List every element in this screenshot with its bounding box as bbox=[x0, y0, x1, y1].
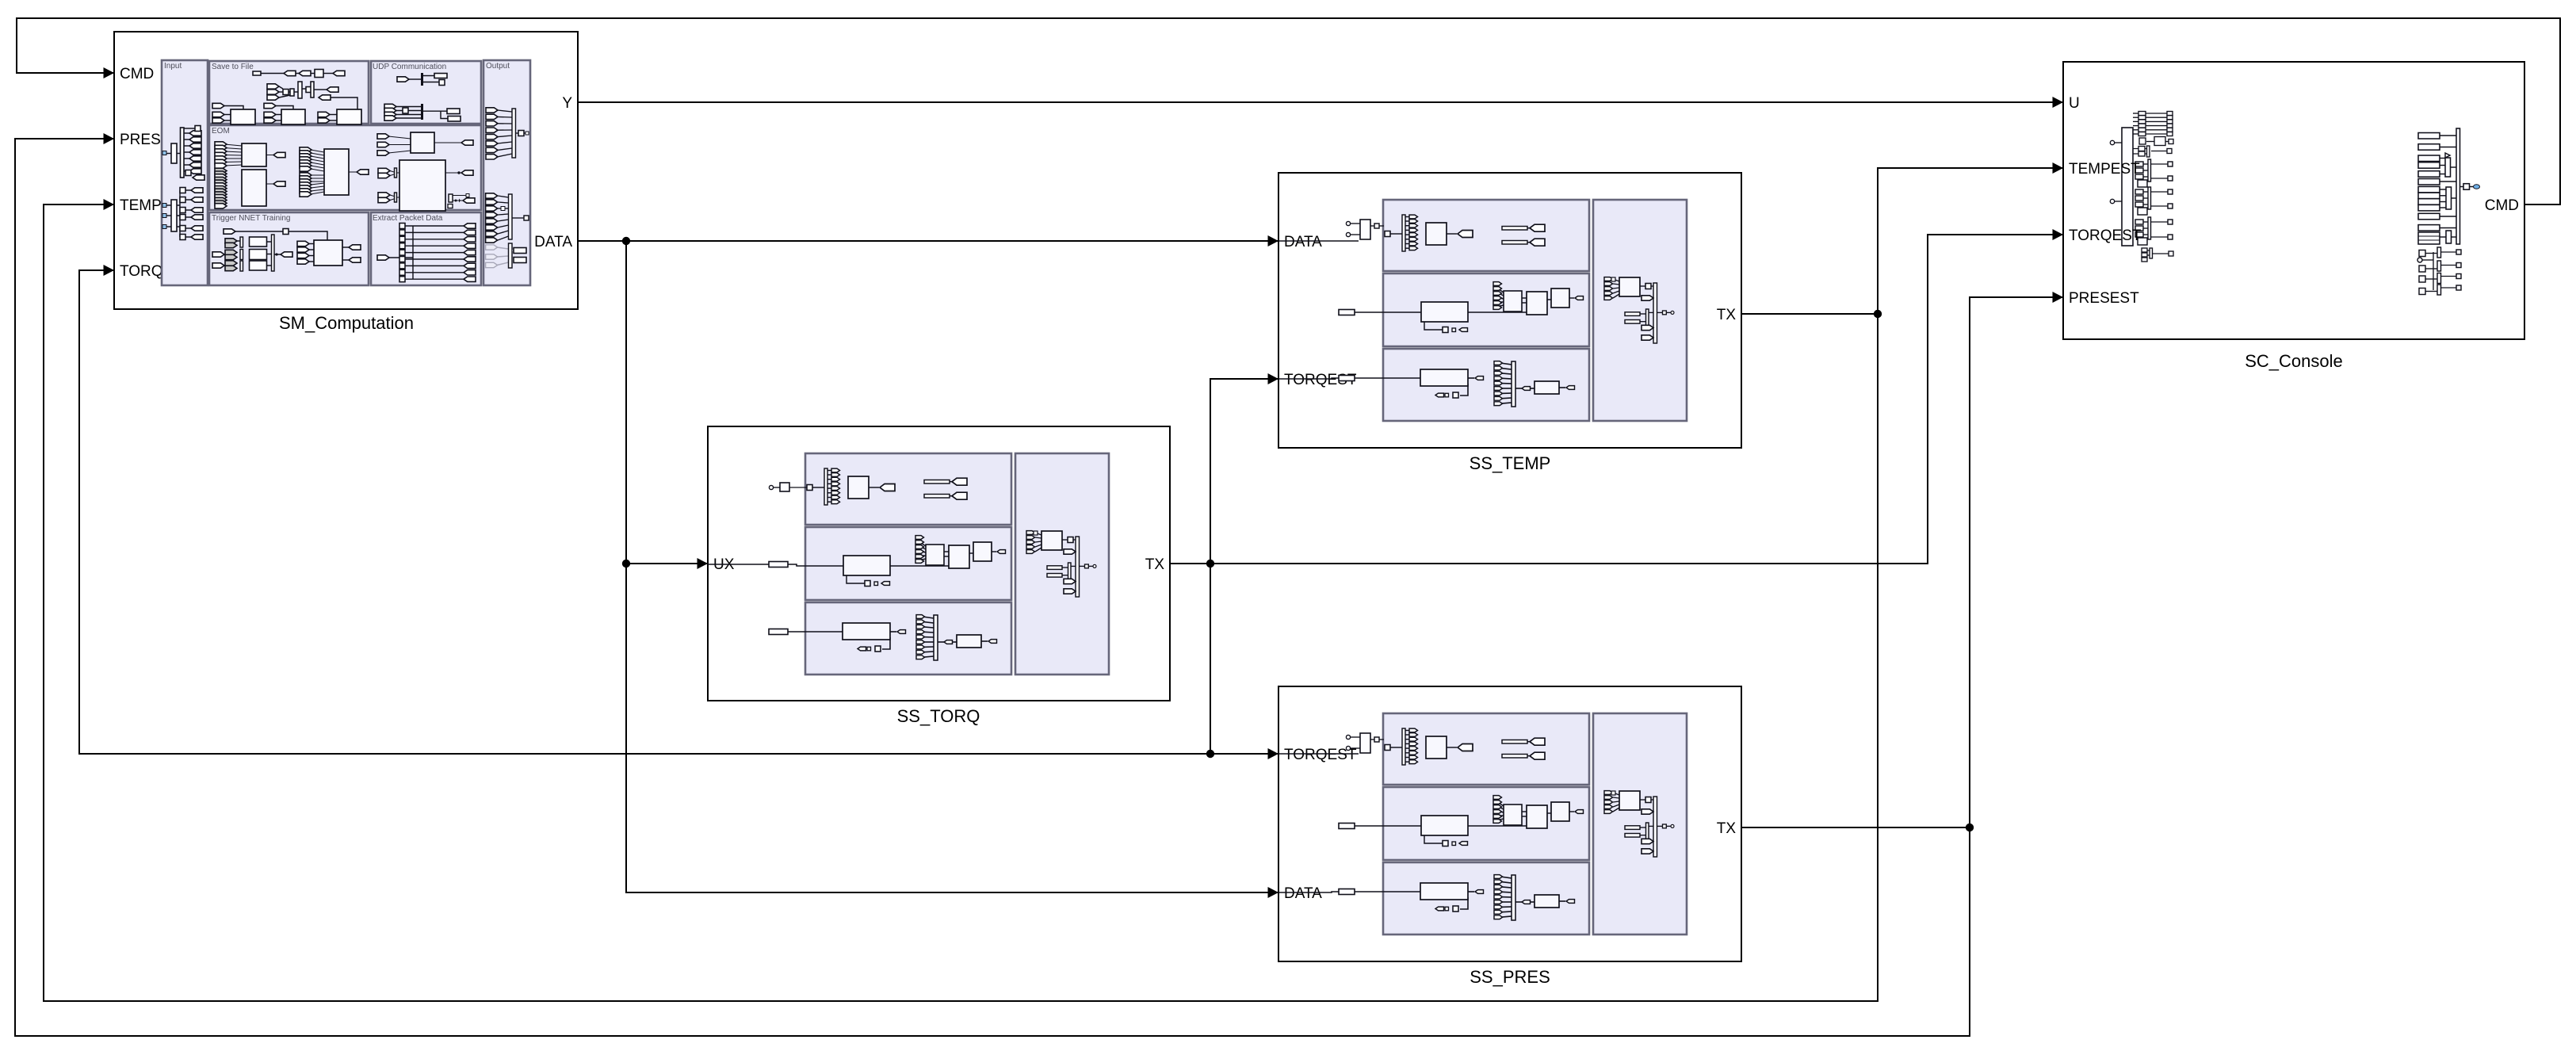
svg-text:DATA: DATA bbox=[1284, 234, 1322, 250]
wire PRES -> SC PRESEST bbox=[1970, 297, 2062, 827]
svg-text:TORQEST: TORQEST bbox=[2069, 227, 2142, 244]
Save to File panel content bbox=[224, 74, 357, 121]
feeder blocks bbox=[171, 143, 177, 163]
EOM panel content bbox=[224, 136, 461, 197]
panel UDP Communication bbox=[371, 61, 481, 124]
wire CMD feedback: SC_Console CMD out -> top -> SM CMD in bbox=[17, 18, 2560, 204]
svg-text:DATA: DATA bbox=[534, 234, 572, 250]
Output faded group bbox=[486, 245, 509, 268]
svg-text:TX: TX bbox=[1717, 820, 1737, 837]
SC left cluster bbox=[2115, 113, 2169, 201]
svg-text:Y: Y bbox=[562, 95, 572, 112]
svg-text:DATA: DATA bbox=[1284, 885, 1322, 902]
panel Extract Packet Data bbox=[371, 212, 481, 285]
SS_PRES bottom feed bbox=[1278, 892, 1339, 892]
Extract Packet Data content bbox=[389, 226, 464, 279]
SM inner area panels bbox=[162, 60, 530, 285]
junction DATA branch bbox=[622, 237, 630, 245]
Output panel content bbox=[498, 110, 526, 240]
svg-text:CMD: CMD bbox=[2485, 197, 2519, 214]
svg-text:SS_PRES: SS_PRES bbox=[1470, 967, 1550, 987]
wire TORQ feedback long bbox=[79, 270, 1278, 754]
svg-text:SM_Computation: SM_Computation bbox=[279, 313, 414, 333]
SC left cluster: 3 mux groups bbox=[2135, 159, 2173, 187]
EOM block C input pents bbox=[300, 147, 311, 197]
svg-text:SS_TEMP: SS_TEMP bbox=[1470, 453, 1551, 473]
SC right cluster bbox=[2440, 136, 2474, 237]
SS_TEMP bottom feed bbox=[1278, 378, 1339, 379]
svg-text:UDP Communication: UDP Communication bbox=[373, 63, 446, 71]
wire DATA: SM DATA out -> SS_TEMP DATA in bbox=[578, 240, 1278, 242]
SC right bottom cluster bbox=[2422, 252, 2456, 292]
wire DATA branch down bbox=[626, 241, 1278, 892]
wire PRES TX -> junction bbox=[1741, 827, 1970, 828]
svg-text:TEMP: TEMP bbox=[120, 197, 162, 214]
svg-text:EOM: EOM bbox=[212, 127, 230, 136]
svg-text:TORQ: TORQ bbox=[120, 263, 163, 280]
panel EOM bbox=[209, 125, 481, 210]
junction TORQ TX branch bbox=[1206, 560, 1214, 568]
EOM block A input pents bbox=[215, 142, 227, 168]
SS_PRES mid feed bbox=[1339, 824, 1355, 829]
svg-text:TX: TX bbox=[1145, 556, 1165, 573]
EOM block D inputs bbox=[377, 134, 389, 155]
SS_TORQ interior bbox=[805, 453, 1109, 675]
wire PRES feedback bbox=[15, 139, 1970, 1036]
Trigger NNET Training content bbox=[224, 231, 349, 266]
SS_TORQ mid feed bbox=[708, 564, 769, 565]
svg-text:Save to File: Save to File bbox=[212, 63, 254, 71]
svg-text:PRESEST: PRESEST bbox=[2069, 290, 2139, 307]
SS_PRES interior bbox=[1383, 713, 1687, 934]
panel Save to File bbox=[209, 61, 369, 124]
panel Output bbox=[483, 60, 530, 285]
Input panel content bbox=[166, 128, 195, 237]
wire DATA branch to UX bbox=[626, 563, 707, 564]
svg-text:U: U bbox=[2069, 95, 2080, 112]
junction TEMP TX branch bbox=[1874, 310, 1882, 318]
EOM block E inputs bbox=[378, 168, 475, 208]
wire TORQ TX -> SC TORQEST bbox=[1170, 235, 2062, 564]
SS_TEMP interior bbox=[1383, 200, 1687, 421]
wire TORQ branch vertical bbox=[1210, 379, 1278, 754]
wire Y: SM Y out -> SC U in bbox=[578, 101, 2062, 103]
junction PRES TX branch bbox=[1966, 824, 1974, 831]
svg-text:CMD: CMD bbox=[120, 66, 154, 82]
junction TORQ feedback bbox=[1206, 750, 1214, 758]
svg-text:TEMPEST: TEMPEST bbox=[2069, 161, 2140, 178]
svg-text:SS_TORQ: SS_TORQ bbox=[897, 706, 980, 726]
EOM block B input pents (some gray) bbox=[215, 168, 227, 208]
svg-text:TX: TX bbox=[1717, 307, 1737, 323]
UDP panel content bbox=[396, 76, 448, 119]
SS_TORQ bottom feed bbox=[769, 629, 788, 635]
panel Trigger NNET Training bbox=[209, 212, 369, 285]
svg-text:Trigger NNET Training: Trigger NNET Training bbox=[212, 214, 290, 223]
wire TEMP TX -> SC TEMPEST bbox=[1741, 168, 2062, 314]
input ports bbox=[104, 67, 115, 78]
svg-text:Output: Output bbox=[486, 62, 510, 71]
svg-text:Extract Packet Data: Extract Packet Data bbox=[373, 214, 443, 223]
SC left bottom mini cluster bbox=[2147, 250, 2169, 255]
junction UX branch bbox=[622, 560, 630, 568]
SS_TEMP mid feed bbox=[1339, 310, 1355, 315]
svg-text:PRES: PRES bbox=[120, 132, 161, 148]
panel Input bbox=[162, 60, 208, 285]
wire TEMP feedback bbox=[44, 204, 1878, 1001]
svg-text:SC_Console: SC_Console bbox=[2245, 351, 2343, 371]
SS_TORQ top feed bbox=[774, 487, 807, 488]
svg-text:Input: Input bbox=[164, 62, 182, 71]
